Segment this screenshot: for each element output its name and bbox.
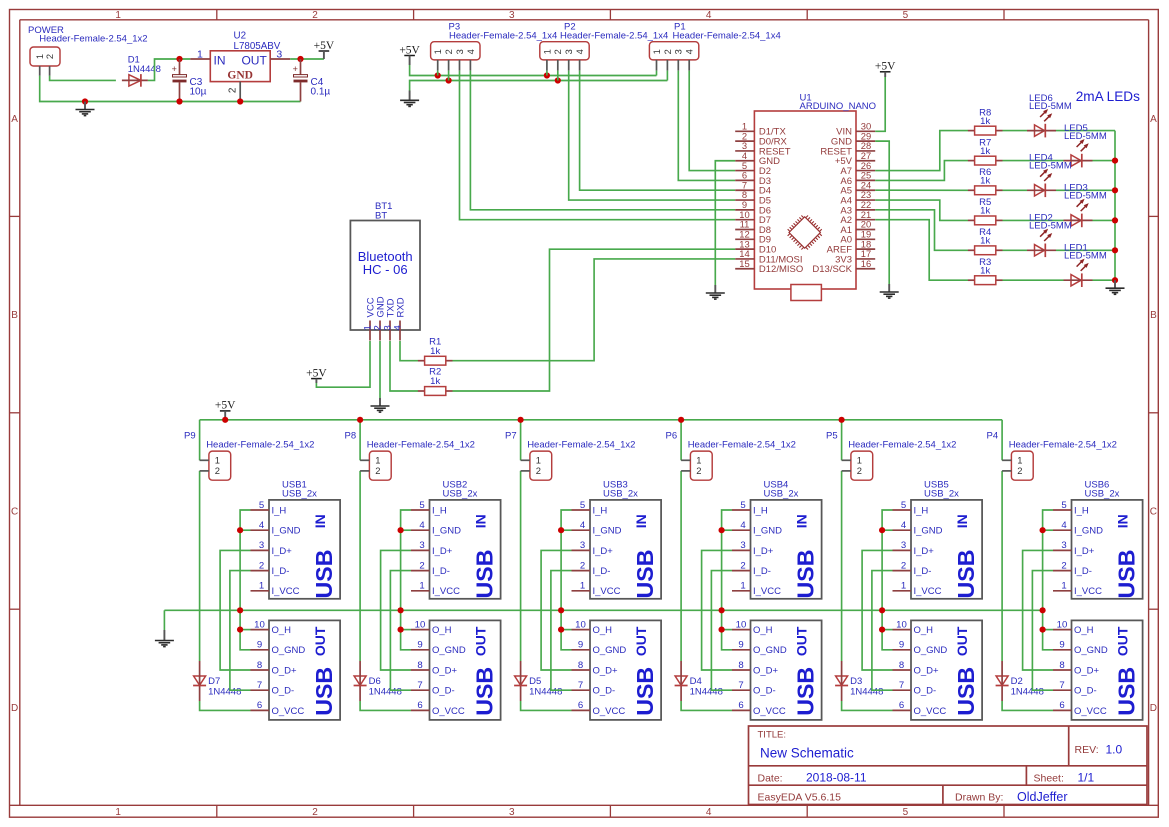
IC U1 ARDUINO_NANO body (754, 111, 856, 289)
svg-text:1: 1 (115, 10, 121, 21)
svg-text:O_VCC: O_VCC (272, 706, 305, 717)
svg-text:Header-Female-2.54_1x2: Header-Female-2.54_1x2 (206, 440, 314, 451)
module USB4 USB_2x OUT box (751, 620, 822, 720)
USB2 OUT rotated text (471, 626, 497, 716)
wire U2 OUT to +5V and C4 (290, 58, 324, 60)
svg-text:O_D+: O_D+ (1074, 665, 1100, 676)
svg-text:2: 2 (312, 10, 318, 21)
LED LED1 (LED-5MM) (1064, 259, 1093, 287)
svg-text:D: D (1150, 703, 1157, 714)
svg-text:D3: D3 (850, 676, 862, 687)
junction USB2 I_GND (398, 527, 404, 533)
svg-text:2: 2 (419, 560, 424, 571)
junction USB1 O_H (237, 627, 243, 633)
svg-text:O_VCC: O_VCC (593, 706, 626, 717)
svg-text:+: + (293, 64, 298, 74)
svg-text:HC - 06: HC - 06 (363, 262, 408, 277)
svg-text:4: 4 (259, 520, 265, 531)
header P9 (Header-Female-2.54_1x2) (200, 451, 231, 480)
svg-text:USB_2x: USB_2x (764, 488, 799, 499)
svg-text:Header-Female-2.54_1x4: Header-Female-2.54_1x4 (673, 31, 781, 42)
svg-text:USB: USB (311, 550, 337, 599)
svg-text:6: 6 (1059, 700, 1064, 711)
svg-text:OUT: OUT (954, 626, 970, 656)
svg-text:2: 2 (663, 49, 673, 54)
svg-text:3: 3 (509, 10, 515, 21)
diode D7 (193, 661, 206, 701)
svg-text:4: 4 (1061, 520, 1067, 531)
ground (power input) (76, 102, 95, 116)
svg-text:2: 2 (553, 49, 563, 54)
svg-text:1.0: 1.0 (1106, 742, 1123, 756)
svg-text:I_H: I_H (272, 505, 287, 516)
svg-text:1: 1 (35, 54, 45, 59)
svg-text:1k: 1k (980, 116, 990, 127)
wire USB3 D+ net (I_D+ to O_D+) (541, 550, 571, 670)
svg-text:2: 2 (901, 560, 906, 571)
wire P4 pin2 to D2 anode (1001, 471, 1003, 661)
svg-text:USB_2x: USB_2x (603, 488, 638, 499)
resistor R7 (968, 156, 1003, 165)
svg-text:1N4448: 1N4448 (850, 687, 883, 698)
junction USB6 I_GND (1040, 527, 1046, 533)
module USB3 USB_2x IN box (590, 500, 661, 599)
USB5 IN pin stubs (893, 510, 912, 591)
wire USB1 ground net (I_H I_GND O_H O_GND) (240, 510, 250, 650)
svg-text:C: C (1150, 507, 1157, 518)
svg-text:OUT: OUT (241, 53, 267, 67)
svg-text:+5V: +5V (875, 61, 896, 73)
svg-text:1: 1 (580, 581, 585, 592)
svg-text:2: 2 (312, 807, 318, 818)
svg-text:O_H: O_H (914, 625, 934, 636)
ground (LED rail) (1106, 280, 1125, 294)
svg-text:I_D+: I_D+ (593, 546, 614, 557)
svg-text:O_H: O_H (272, 625, 292, 636)
USB6 IN pin stubs (1053, 510, 1072, 591)
capacitor C3 (172, 59, 187, 102)
wire USB4 ground net (I_H I_GND O_H O_GND) (722, 510, 732, 650)
svg-text:O_GND: O_GND (272, 645, 306, 656)
label BT1 BT (375, 201, 392, 222)
svg-text:P8: P8 (345, 431, 357, 442)
svg-text:IN: IN (633, 514, 649, 528)
wire USB6 I_GND tap (1043, 529, 1053, 531)
svg-text:4: 4 (580, 520, 586, 531)
label P6 refdes (666, 431, 796, 451)
svg-text:Header-Female-2.54_1x2: Header-Female-2.54_1x2 (39, 34, 147, 45)
USB5 OUT pin stubs (893, 630, 912, 711)
wire R3 to LED1 (1003, 279, 1064, 281)
wire R4 to LED2 (1003, 249, 1028, 251)
wire USB3 ground net (I_H I_GND O_H O_GND) (561, 510, 571, 650)
svg-text:O_GND: O_GND (753, 645, 787, 656)
wire USB5 D- net (I_D- to O_D-) (872, 571, 893, 691)
junction USB3 I_GND (558, 527, 564, 533)
svg-text:3: 3 (580, 540, 585, 551)
svg-text:3: 3 (259, 540, 264, 551)
svg-text:5: 5 (740, 500, 745, 511)
svg-text:I_D+: I_D+ (272, 546, 293, 557)
svg-text:O_VCC: O_VCC (432, 706, 465, 717)
svg-text:8: 8 (1059, 660, 1064, 671)
+5V net flag (logic rail) (399, 44, 420, 65)
svg-text:I_H: I_H (1074, 505, 1089, 516)
header P1 (Header-Female-2.54_1x4) (649, 42, 698, 71)
label P1 refdes (673, 21, 781, 41)
USB3 OUT pin names (593, 625, 627, 717)
wire USB6 D+ net (I_D+ to O_D+) (1023, 550, 1053, 670)
header POWER (Header-Female-2.54_1x2) (30, 47, 60, 76)
USB5 OUT pin numbers (896, 619, 907, 711)
svg-text:9: 9 (899, 640, 904, 651)
junction rail1 P3 pin1 (435, 72, 441, 78)
USB6 OUT pin numbers (1057, 619, 1068, 711)
+5V net flag (power output) (314, 40, 335, 59)
label R4 1k (979, 227, 991, 246)
USB5 IN pin names (914, 505, 943, 597)
svg-text:0.1µ: 0.1µ (311, 87, 331, 98)
svg-text:Drawn By:: Drawn By: (955, 792, 1003, 804)
svg-text:10: 10 (575, 619, 586, 630)
wire U1 GND pin29 to ground (875, 141, 889, 284)
label D3 1N4448 (850, 676, 883, 698)
svg-text:O_D-: O_D- (593, 686, 616, 697)
USB3 IN pin stubs (572, 510, 591, 591)
module USB5 USB_2x IN box (911, 500, 982, 599)
junction rail at P7 (518, 417, 524, 423)
svg-text:8: 8 (417, 660, 422, 671)
BT1 pin stubs (370, 321, 400, 341)
svg-text:P7: P7 (505, 431, 517, 442)
wire USB1 D+ net (I_D+ to O_D+) (220, 550, 250, 670)
USB4 OUT pin stubs (732, 630, 751, 711)
svg-text:O_D-: O_D- (914, 686, 937, 697)
svg-text:I_D-: I_D- (753, 566, 771, 577)
module USB5 USB_2x OUT box (911, 620, 982, 720)
label P8 refdes (345, 431, 475, 451)
wire P1 pin2 to rail2 (666, 71, 668, 81)
module USB3 USB_2x OUT box (590, 620, 661, 720)
U1 usb connector notch (791, 285, 822, 301)
USB2 IN pin numbers (419, 500, 425, 592)
svg-text:O_D-: O_D- (1074, 686, 1097, 697)
wire LED5 cathode to LED ground rail (1093, 160, 1116, 162)
USB5 OUT pin names (914, 625, 948, 717)
svg-text:GND: GND (227, 70, 253, 82)
USB1 IN rotated text (311, 514, 337, 598)
svg-text:2: 2 (536, 465, 541, 476)
svg-text:4: 4 (706, 10, 712, 21)
BT1 pin numbers 1-4 (363, 325, 404, 330)
wire R8 to LED6 (1003, 130, 1028, 132)
USB6 IN pin numbers (1061, 500, 1067, 592)
svg-text:10: 10 (415, 619, 426, 630)
wire U1 A6 to R7 (875, 161, 968, 181)
svg-text:1k: 1k (430, 346, 440, 357)
svg-text:+5V: +5V (306, 367, 327, 379)
LED LED3 (LED-5MM) (1064, 199, 1093, 227)
wire U1 A5 to R6 (875, 189, 968, 191)
svg-text:I_H: I_H (753, 505, 768, 516)
svg-text:3: 3 (455, 49, 465, 54)
junction rail2 P2 pin2 (555, 77, 561, 83)
USB4 IN rotated text (792, 514, 818, 598)
header P8 (Header-Female-2.54_1x2) (360, 451, 391, 480)
svg-text:USB_2x: USB_2x (1085, 488, 1120, 499)
svg-text:2: 2 (857, 465, 862, 476)
junction USB2 O_H (398, 627, 404, 633)
svg-text:I_VCC: I_VCC (272, 586, 300, 597)
svg-text:7: 7 (1059, 680, 1064, 691)
wire LED6 cathode to LED ground rail (1056, 130, 1115, 132)
U2 pin names IN OUT GND (214, 53, 268, 81)
wire P5 pin2 to D3 anode (841, 471, 843, 661)
svg-text:P9: P9 (184, 431, 196, 442)
svg-text:1: 1 (259, 581, 264, 592)
svg-text:USB: USB (311, 667, 337, 716)
header P2 (Header-Female-2.54_1x4) (540, 42, 589, 71)
svg-text:8: 8 (899, 660, 904, 671)
svg-text:USB: USB (471, 667, 497, 716)
wire U1 A2 to R3 (875, 220, 968, 281)
svg-text:5: 5 (1061, 500, 1066, 511)
label POWER refdes (28, 25, 148, 44)
junction USB4 O_H (719, 627, 725, 633)
svg-text:3: 3 (564, 49, 574, 54)
svg-text:O_D+: O_D+ (753, 665, 779, 676)
svg-text:I_H: I_H (914, 505, 929, 516)
svg-text:USB: USB (471, 550, 497, 599)
svg-text:+5V: +5V (314, 40, 335, 52)
svg-text:O_D+: O_D+ (272, 665, 298, 676)
junction rail at P5 (839, 417, 845, 423)
resistor R4 (968, 246, 1003, 255)
wire USB1 D- net (I_D- to O_D-) (230, 571, 251, 691)
svg-text:LED-5MM: LED-5MM (1064, 251, 1107, 262)
label P5 refdes (826, 431, 956, 451)
USB1 OUT pin numbers (254, 619, 265, 711)
svg-text:5: 5 (903, 10, 909, 21)
svg-text:O_D+: O_D+ (593, 665, 619, 676)
label R1 1k (429, 336, 441, 357)
junction USB3 ground rail (558, 607, 564, 613)
svg-text:3: 3 (509, 807, 515, 818)
svg-text:1: 1 (901, 581, 906, 592)
label R5 1k (979, 197, 991, 216)
svg-text:1: 1 (433, 49, 443, 54)
svg-text:IN: IN (312, 514, 328, 528)
svg-text:O_H: O_H (753, 625, 773, 636)
svg-text:9: 9 (257, 640, 262, 651)
wire BT1 VCC to +5V (316, 341, 370, 387)
svg-text:Header-Female-2.54_1x2: Header-Female-2.54_1x2 (688, 440, 796, 451)
label USB5 USB_2x (924, 480, 959, 500)
junction USB1 ground rail (237, 607, 243, 613)
svg-text:2: 2 (580, 560, 585, 571)
wire D2 cathode to USB6 O_VCC (1002, 701, 1053, 710)
wire LED1 cathode to LED ground rail (1093, 279, 1116, 281)
junction USB5 ground rail (879, 607, 885, 613)
wire USB2 D- net (I_D- to O_D-) (390, 571, 411, 691)
wire P2 pin2 to rail2 (557, 71, 559, 81)
wire USB3 I_GND tap (561, 529, 571, 531)
svg-text:D4: D4 (690, 676, 702, 687)
svg-text:USB_2x: USB_2x (924, 488, 959, 499)
svg-text:1k: 1k (980, 206, 990, 217)
svg-text:I_H: I_H (593, 505, 608, 516)
svg-text:O_H: O_H (593, 625, 613, 636)
label P3 refdes (449, 21, 558, 41)
U1 left pin numbers 1-15 (739, 121, 749, 269)
resistor R1 (418, 356, 453, 365)
diode D4 (675, 661, 688, 701)
label R6 1k (979, 167, 991, 186)
svg-text:USB: USB (792, 667, 818, 716)
label LED3 LED-5MM (1064, 183, 1107, 202)
svg-text:2018-08-11: 2018-08-11 (806, 771, 867, 785)
svg-text:10: 10 (254, 619, 265, 630)
svg-text:1k: 1k (430, 376, 440, 387)
svg-text:OUT: OUT (633, 626, 649, 656)
svg-text:D12/MISO: D12/MISO (759, 264, 803, 275)
diode D5 (514, 661, 527, 701)
svg-text:O_GND: O_GND (914, 645, 948, 656)
svg-text:1: 1 (215, 455, 220, 466)
svg-text:I_D+: I_D+ (753, 546, 774, 557)
svg-text:USB: USB (1113, 667, 1139, 716)
svg-text:O_GND: O_GND (593, 645, 627, 656)
wire USB3 O_H tap (561, 629, 571, 631)
svg-text:Header-Female-2.54_1x4: Header-Female-2.54_1x4 (449, 31, 557, 42)
USB4 IN pin numbers (740, 500, 746, 592)
wire POWER pin1 to ground rail (40, 76, 301, 102)
ground (USB rail) (155, 630, 174, 647)
svg-text:D6: D6 (369, 676, 381, 687)
USB4 OUT pin names (753, 625, 787, 717)
USB4 OUT rotated text (792, 626, 818, 716)
junction USB4 ground rail (719, 607, 725, 613)
wire rail to P7 pin1 (520, 420, 522, 461)
wire USB6 ground net (I_H I_GND O_H O_GND) (1043, 510, 1053, 650)
svg-text:Header-Female-2.54_1x2: Header-Female-2.54_1x2 (527, 440, 635, 451)
svg-text:1: 1 (197, 49, 203, 61)
svg-text:Header-Female-2.54_1x4: Header-Female-2.54_1x4 (560, 31, 668, 42)
junction LED rail row LED3 (1112, 217, 1118, 223)
svg-text:USB: USB (632, 667, 658, 716)
svg-text:I_D-: I_D- (914, 566, 932, 577)
USB3 IN rotated text (632, 514, 658, 598)
svg-text:OldJeffer: OldJeffer (1017, 790, 1068, 804)
wire USB1 O_H tap (240, 629, 250, 631)
header P4 (Header-Female-2.54_1x2) (1002, 451, 1033, 480)
LED LED5 (LED-5MM) (1064, 139, 1093, 167)
wire P2 pin3 to U1 pin8 D5 (569, 71, 736, 200)
svg-text:O_VCC: O_VCC (1074, 706, 1107, 717)
U1 left pin stubs (pins 1-15) (735, 131, 754, 268)
label R3 1k (979, 257, 991, 276)
capacitor C4 (293, 59, 308, 102)
svg-text:1: 1 (536, 455, 541, 466)
wire D3 cathode to USB5 O_VCC (842, 701, 893, 710)
USB1 OUT pin names (272, 625, 306, 717)
svg-text:O_VCC: O_VCC (753, 706, 786, 717)
svg-text:O_D-: O_D- (272, 686, 295, 697)
wire R1 to U1 pin14 D11/MOSI (453, 259, 736, 361)
svg-text:EasyEDA V5.6.15: EasyEDA V5.6.15 (758, 792, 842, 804)
svg-text:7: 7 (738, 680, 743, 691)
wire U1 A7 to R8 (875, 131, 968, 171)
wire USB4 O_H tap (722, 629, 732, 631)
USB4 IN pin names (753, 505, 782, 597)
regulator U2 L7805ABV (190, 51, 290, 102)
svg-text:10: 10 (896, 619, 907, 630)
svg-text:IN: IN (472, 514, 488, 528)
LED LED2 (LED-5MM) (1027, 229, 1056, 257)
svg-text:I_GND: I_GND (593, 526, 622, 537)
svg-text:IN: IN (954, 514, 970, 528)
svg-text:I_D-: I_D- (432, 566, 450, 577)
ground (U1 pin4) (706, 285, 725, 299)
label R2 1k (429, 367, 441, 388)
svg-text:Header-Female-2.54_1x2: Header-Female-2.54_1x2 (367, 440, 475, 451)
svg-text:Header-Female-2.54_1x2: Header-Female-2.54_1x2 (1009, 440, 1117, 451)
resistor R8 (968, 126, 1003, 135)
svg-text:C: C (11, 507, 18, 518)
svg-text:USB_2x: USB_2x (282, 488, 317, 499)
svg-text:+: + (172, 64, 177, 74)
junction rail at P6 (678, 417, 684, 423)
svg-text:I_VCC: I_VCC (753, 586, 781, 597)
wire P3 pin4 to U1 pin9 D6 (470, 71, 735, 210)
svg-text:O_GND: O_GND (432, 645, 466, 656)
USB2 OUT pin names (432, 625, 466, 717)
svg-text:I_GND: I_GND (914, 526, 943, 537)
svg-text:10: 10 (736, 619, 747, 630)
svg-text:New Schematic: New Schematic (760, 745, 854, 760)
label R7 1k (979, 137, 991, 156)
svg-text:1: 1 (1061, 581, 1066, 592)
svg-text:O_D+: O_D+ (914, 665, 940, 676)
wire BT1 GND to ground (379, 341, 381, 398)
module USB2 USB_2x OUT box (430, 620, 501, 720)
wire LED4 cathode to LED ground rail (1056, 189, 1115, 191)
USB5 IN pin numbers (901, 500, 907, 592)
+5V net flag (VIN) (875, 61, 896, 77)
svg-text:10: 10 (1057, 619, 1068, 630)
wire +5V rail to P1 pin1 (rail1) (410, 65, 657, 76)
junction LED rail row LED2 (1112, 247, 1118, 253)
wire P1 pin4 to U1 pin5 D2 (689, 71, 735, 171)
wire GND rail to P1 pin2 (rail2) (410, 81, 668, 91)
svg-text:4: 4 (466, 49, 476, 54)
svg-text:9: 9 (1059, 640, 1064, 651)
svg-text:7: 7 (899, 680, 904, 691)
svg-text:9: 9 (738, 640, 743, 651)
svg-text:I_VCC: I_VCC (432, 586, 460, 597)
wire P9 pin2 to D7 anode (199, 471, 201, 661)
svg-text:3: 3 (419, 540, 424, 551)
resistor R3 (968, 276, 1003, 285)
svg-text:8: 8 (257, 660, 262, 671)
svg-text:RXD: RXD (395, 297, 406, 317)
label D4 1N4448 (690, 676, 723, 698)
ground (BT1 GND) (371, 398, 390, 412)
module USB1 USB_2x IN box (269, 500, 340, 599)
module USB2 USB_2x IN box (430, 500, 501, 599)
svg-text:5: 5 (419, 500, 424, 511)
svg-text:1: 1 (375, 455, 380, 466)
